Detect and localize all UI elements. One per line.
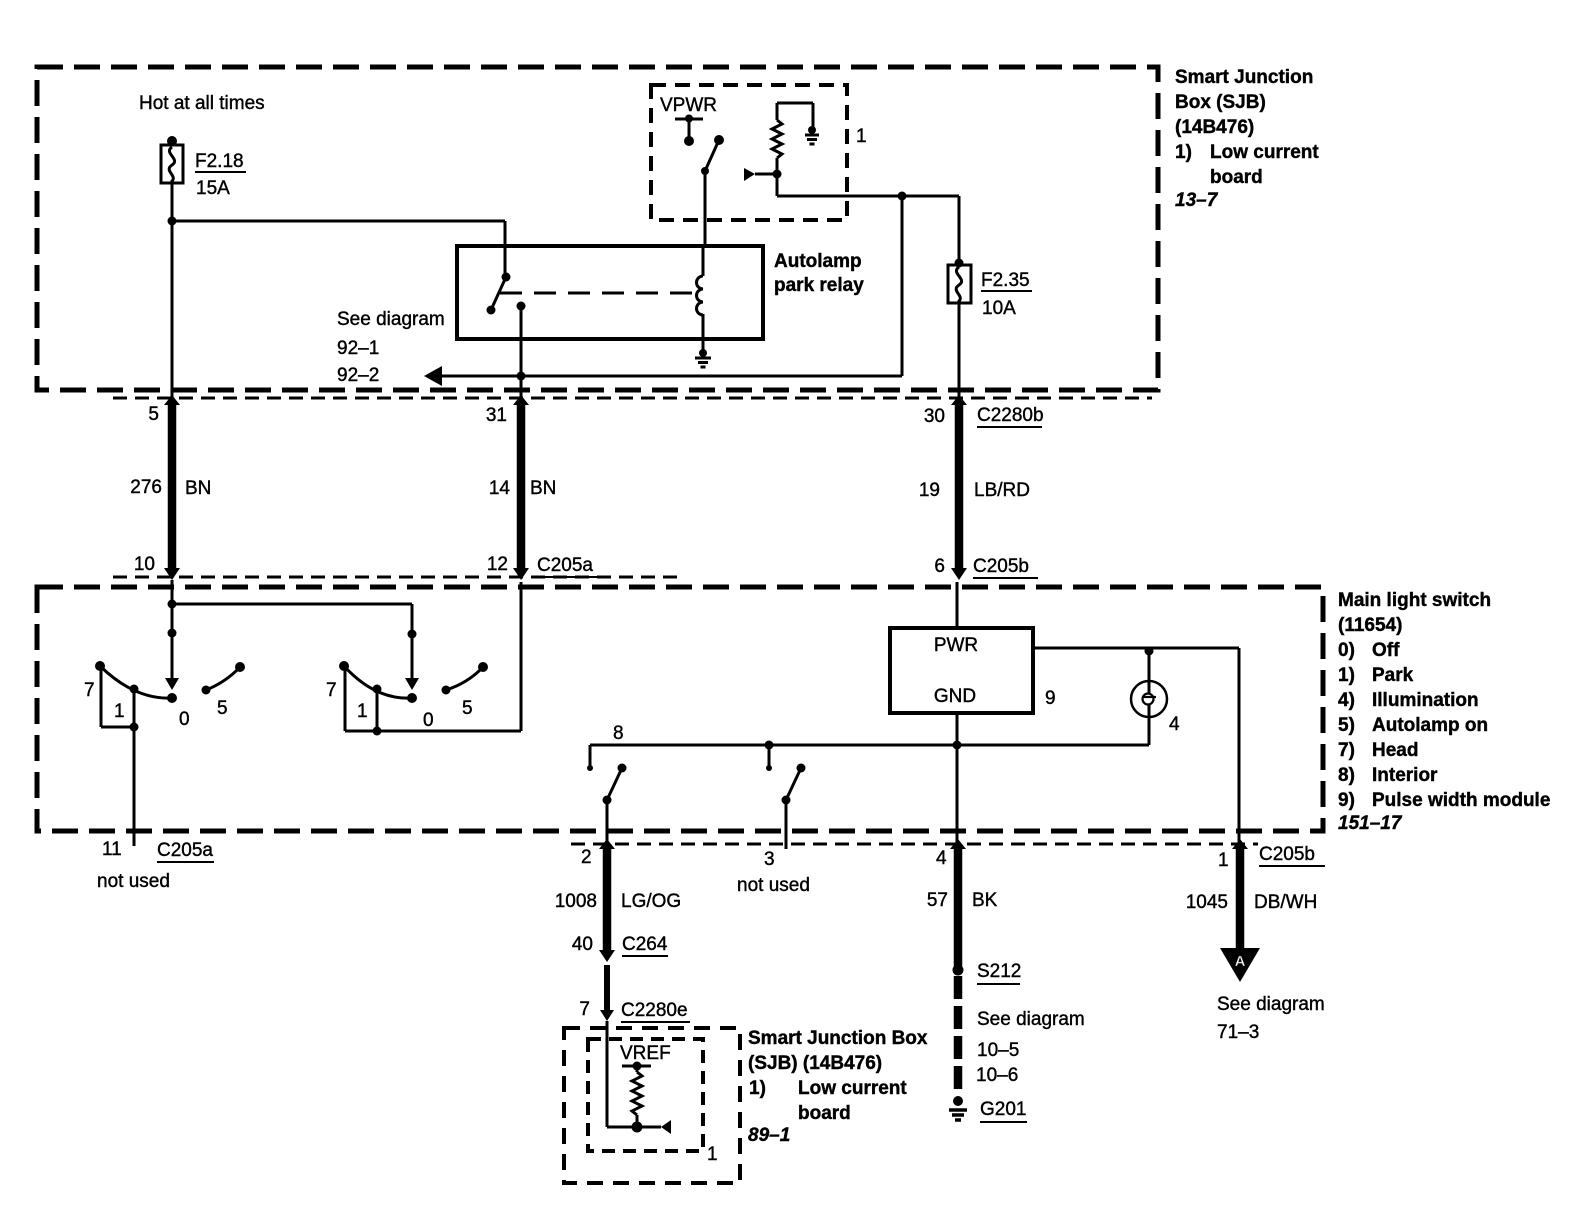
svg-text:LG/OG: LG/OG [621, 891, 681, 912]
svg-text:92–2: 92–2 [337, 365, 379, 386]
svg-text:not used: not used [737, 875, 810, 896]
svg-text:6: 6 [934, 556, 945, 577]
svg-text:1: 1 [114, 701, 125, 722]
svg-text:BK: BK [972, 890, 998, 911]
svg-text:not used: not used [97, 871, 170, 892]
svg-text:1008: 1008 [555, 891, 597, 912]
svg-text:F2.35: F2.35 [981, 270, 1030, 291]
svg-text:GND: GND [934, 686, 976, 707]
svg-text:C264: C264 [622, 934, 668, 955]
svg-text:15A: 15A [196, 178, 230, 199]
svg-text:C205a: C205a [157, 840, 213, 861]
svg-text:Park: Park [1372, 665, 1414, 686]
svg-text:Smart Junction: Smart Junction [1175, 67, 1313, 88]
svg-text:5: 5 [148, 404, 159, 425]
svg-text:park relay: park relay [774, 275, 864, 296]
svg-text:C205b: C205b [1259, 844, 1315, 865]
svg-text:89–1: 89–1 [748, 1125, 790, 1146]
svg-text:5: 5 [462, 698, 473, 719]
svg-text:5): 5) [1338, 715, 1355, 736]
svg-text:Low current: Low current [798, 1078, 907, 1099]
svg-text:C205a: C205a [537, 555, 593, 576]
svg-text:G201: G201 [980, 1099, 1026, 1120]
svg-text:1): 1) [1175, 142, 1192, 163]
svg-text:151–17: 151–17 [1338, 813, 1403, 834]
svg-text:Head: Head [1372, 740, 1418, 761]
svg-text:Low current: Low current [1210, 142, 1319, 163]
svg-text:Box (SJB): Box (SJB) [1175, 92, 1266, 113]
svg-text:Autolamp on: Autolamp on [1372, 715, 1488, 736]
svg-text:19: 19 [919, 480, 940, 501]
svg-text:Interior: Interior [1372, 765, 1438, 786]
svg-text:30: 30 [924, 406, 945, 427]
svg-text:3: 3 [764, 849, 775, 870]
svg-text:1: 1 [856, 126, 867, 147]
svg-text:PWR: PWR [934, 635, 978, 656]
svg-text:LB/RD: LB/RD [974, 480, 1030, 501]
svg-text:C2280b: C2280b [977, 405, 1044, 426]
svg-text:10A: 10A [982, 298, 1016, 319]
svg-text:See diagram: See diagram [977, 1009, 1085, 1030]
svg-text:10–5: 10–5 [977, 1040, 1019, 1061]
svg-text:9): 9) [1338, 790, 1355, 811]
svg-text:31: 31 [486, 405, 507, 426]
svg-text:12: 12 [487, 554, 508, 575]
svg-text:9: 9 [1045, 688, 1056, 709]
svg-text:1045: 1045 [1186, 892, 1228, 913]
svg-text:7): 7) [1338, 740, 1355, 761]
svg-text:F2.18: F2.18 [195, 151, 244, 172]
svg-text:C205b: C205b [973, 556, 1029, 577]
svg-text:1): 1) [749, 1078, 766, 1099]
svg-text:BN: BN [530, 478, 556, 499]
svg-text:S212: S212 [977, 961, 1021, 982]
svg-text:7: 7 [84, 680, 95, 701]
svg-text:Smart Junction Box: Smart Junction Box [748, 1028, 928, 1049]
svg-text:1): 1) [1338, 665, 1355, 686]
svg-text:C2280e: C2280e [621, 1000, 688, 1021]
svg-text:0): 0) [1338, 640, 1355, 661]
svg-text:8: 8 [613, 723, 624, 744]
svg-text:VPWR: VPWR [660, 95, 717, 116]
svg-text:4: 4 [1169, 714, 1180, 735]
svg-text:BN: BN [185, 478, 211, 499]
svg-text:Main light switch: Main light switch [1338, 590, 1491, 611]
svg-text:(SJB) (14B476): (SJB) (14B476) [748, 1053, 882, 1074]
svg-text:40: 40 [572, 934, 593, 955]
svg-text:7: 7 [579, 999, 590, 1020]
svg-text:0: 0 [423, 710, 434, 731]
svg-text:4: 4 [936, 848, 947, 869]
svg-text:See diagram: See diagram [1217, 994, 1325, 1015]
svg-text:5: 5 [217, 698, 228, 719]
svg-text:Hot at all times: Hot at all times [139, 93, 265, 114]
svg-text:A: A [1235, 953, 1246, 970]
svg-text:(11654): (11654) [1338, 615, 1402, 636]
svg-text:Pulse width module: Pulse width module [1372, 790, 1550, 811]
svg-text:(14B476): (14B476) [1175, 117, 1254, 138]
svg-text:71–3: 71–3 [1217, 1022, 1259, 1043]
svg-text:57: 57 [927, 890, 948, 911]
svg-text:board: board [1210, 167, 1263, 188]
svg-text:92–1: 92–1 [337, 338, 379, 359]
svg-text:DB/WH: DB/WH [1254, 892, 1317, 913]
svg-text:VREF: VREF [620, 1043, 671, 1064]
svg-text:10: 10 [134, 554, 155, 575]
svg-text:0: 0 [179, 709, 190, 730]
svg-text:1: 1 [357, 701, 368, 722]
svg-text:276: 276 [130, 477, 162, 498]
svg-text:1: 1 [707, 1144, 718, 1165]
svg-text:10–6: 10–6 [976, 1065, 1018, 1086]
svg-text:Autolamp: Autolamp [774, 251, 862, 272]
svg-text:Illumination: Illumination [1372, 690, 1479, 711]
svg-text:2: 2 [581, 847, 592, 868]
svg-text:1: 1 [1218, 850, 1229, 871]
svg-text:See diagram: See diagram [337, 309, 445, 330]
svg-text:7: 7 [326, 680, 337, 701]
svg-text:Off: Off [1372, 640, 1400, 661]
svg-text:board: board [798, 1103, 851, 1124]
svg-text:13–7: 13–7 [1175, 190, 1219, 211]
svg-text:14: 14 [489, 478, 511, 499]
svg-text:8): 8) [1338, 765, 1355, 786]
svg-text:11: 11 [102, 839, 122, 860]
svg-text:4): 4) [1338, 690, 1355, 711]
